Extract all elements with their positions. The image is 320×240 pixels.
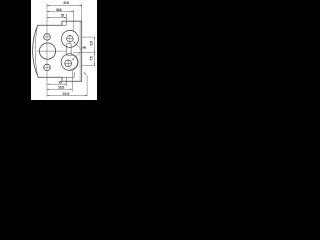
svg-text:9.5: 9.5: [89, 41, 93, 45]
dim line 16.5 bottom: [47, 88, 72, 90]
inner right edge line: [79, 21, 81, 81]
arrows 23.5 bottom: [47, 95, 49, 96]
arrows vertical dim: [94, 37, 95, 39]
bottom boss offset arc: [70, 55, 77, 69]
arrows 15 top: [47, 17, 49, 18]
bottom boss tapped hole: [65, 60, 72, 67]
step inner edge top: [65, 14, 67, 25]
svg-text:16.5: 16.5: [56, 8, 62, 12]
big bore circle: [39, 43, 55, 59]
horizontal centerline big bore: [37, 50, 67, 52]
bottom boss crosshair: [64, 62, 72, 64]
svg-text:21.5: 21.5: [63, 1, 69, 5]
ext line 23.5 bottom: [86, 76, 88, 97]
svg-text:15: 15: [58, 81, 62, 85]
ext line 21.5 right: [81, 4, 83, 22]
inner silhouette arc left: [35, 27, 37, 76]
dim line 15 top: [47, 17, 66, 19]
arrows 21.5: [47, 5, 49, 6]
vertical dim line right: [94, 37, 96, 65]
vertical centerline left holes: [46, 4, 48, 97]
step top line bottom: [62, 76, 74, 78]
svg-text:7.5: 7.5: [89, 56, 93, 60]
bottom-left hole: [44, 64, 51, 71]
dim line 16.5 top: [47, 11, 74, 13]
arrowhead leader top boss: [73, 41, 75, 43]
dim line 15 bottom: [47, 83, 66, 85]
svg-text:23.5: 23.5: [63, 92, 70, 96]
ext line 16.5 top: [73, 10, 75, 33]
part outline: [33, 21, 82, 81]
ext line right middle: [73, 52, 95, 54]
top boss tapped hole: [67, 36, 73, 42]
svg-text:16.5: 16.5: [58, 86, 64, 90]
leader bottom boss: [72, 53, 81, 61]
arrows 16.5 bottom: [47, 89, 49, 90]
top-left hole: [44, 34, 51, 41]
leader top boss: [73, 41, 81, 50]
arrowhead leader bottom right: [84, 72, 86, 74]
step bottom line top: [62, 24, 66, 26]
top boss crosshair: [66, 38, 74, 40]
ext line right top: [82, 36, 96, 38]
bottom-left hole tick: [44, 66, 51, 68]
bottom boss outer circle: [61, 54, 78, 71]
top boss outer circle: [61, 30, 78, 47]
port edge vertical bottom: [73, 72, 75, 77]
svg-text:15: 15: [61, 14, 64, 18]
step inner edge bottom: [65, 77, 67, 86]
dim line 21.5: [47, 5, 82, 7]
white drawing sheet: [31, 0, 97, 100]
ext line 16.5 bottom: [71, 71, 73, 92]
svg-text:M5: M5: [83, 46, 87, 50]
top-left hole tick: [44, 36, 51, 38]
arrows 16.5 top: [47, 11, 49, 12]
leader bottom right: [84, 72, 88, 76]
dim line 23.5 bottom: [47, 95, 87, 97]
black background: [0, 0, 132, 100]
arrows 15 bottom: [47, 84, 49, 85]
arrowhead leader bottom boss: [72, 58, 74, 60]
middle port rectangle: [67, 44, 71, 56]
ext line right bottom: [82, 64, 96, 66]
